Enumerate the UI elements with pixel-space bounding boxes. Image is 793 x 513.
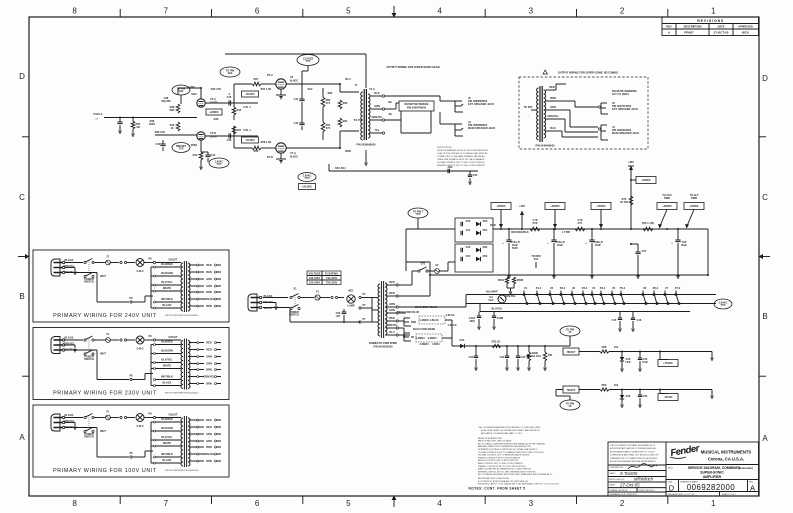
svg-text:BLK/YEL: BLK/YEL <box>162 435 173 439</box>
ground symbol 230V <box>74 345 76 349</box>
svg-text:C50: C50 <box>466 219 471 223</box>
svg-text:TO P18: TO P18 <box>354 118 363 122</box>
regulator U10 7815 <box>563 348 579 355</box>
svg-text:C57: C57 <box>642 249 647 253</box>
svg-text:TYP.: TYP. <box>720 303 726 307</box>
svg-text:7915CT: 7915CT <box>566 388 576 392</box>
combo jack J5 <box>600 103 602 114</box>
tube V5-B 12AT7 <box>197 132 205 140</box>
svg-text:P2-4: P2-4 <box>560 286 566 290</box>
svg-text:P6-2: P6-2 <box>653 286 659 290</box>
svg-text:RED: RED <box>206 263 212 267</box>
svg-text:DRAWN: WILRICH: DRAWN: WILRICH <box>610 489 628 492</box>
boxed label bias V6 <box>242 91 259 97</box>
plug wires 240V <box>65 262 83 264</box>
domestic tap RED1 <box>386 284 396 286</box>
primary wiring box 230V <box>33 328 229 400</box>
svg-text:BRN: BRN <box>206 304 212 308</box>
capacitor C52 line filter <box>343 309 345 312</box>
svg-text:3: 3 <box>529 499 534 508</box>
pilot lamp 100V <box>136 414 144 422</box>
svg-text:V5: V5 <box>612 286 616 290</box>
svg-text:D20: D20 <box>448 165 453 169</box>
svg-text:MRWilrich: MRWilrich <box>634 477 654 482</box>
svg-text:R58: R58 <box>602 345 607 349</box>
svg-text:GRN: GRN <box>206 361 212 365</box>
svg-text:RED: RED <box>549 85 555 89</box>
svg-text:→: → <box>403 315 406 318</box>
tap ladder vertical 240V <box>150 267 152 308</box>
svg-text:DATE: DATE <box>718 25 725 29</box>
svg-text:BLK/GRN: BLK/GRN <box>161 349 173 353</box>
svg-text:* ALL VOLTAGES MEASURED WITH: * ALL VOLTAGES MEASURED WITH RESPECT TO … <box>478 426 541 429</box>
wire V7 plate to OT <box>286 147 340 149</box>
svg-text:DESCRIPTION: DESCRIPTION <box>684 25 702 29</box>
tube V5-A 12AT7 <box>197 99 205 107</box>
revisions table <box>662 17 759 36</box>
zone ticks bottom border <box>119 496 121 504</box>
svg-text:VOLUME CONTROL SET TO FULL CCW: VOLUME CONTROL SET TO FULL CCW POSITION <box>437 162 485 164</box>
svg-text:F1: F1 <box>107 332 111 336</box>
svg-text:C40-2: C40-2 <box>137 347 145 351</box>
svg-text:22@450: 22@450 <box>161 99 171 103</box>
fuse F2 <box>435 269 440 274</box>
svg-text:PART OF FACTORY LINE VOLTAGE:: PART OF FACTORY LINE VOLTAGE: <box>478 440 512 443</box>
svg-text:SWITCH: SWITCH <box>84 357 94 361</box>
svg-text:D16: D16 <box>626 394 631 398</box>
svg-text:VOLUME CONTROL SET TO MINIMUM: VOLUME CONTROL SET TO MINIMUM GAIN POSIT… <box>478 454 530 457</box>
svg-text:BLACK: BLACK <box>163 381 172 385</box>
wire to V6 grid <box>233 84 235 103</box>
svg-text:BLK/RED: BLK/RED <box>161 417 172 421</box>
svg-text:BLU/WHT: BLU/WHT <box>486 290 498 294</box>
transformer T4 secondary winding <box>188 418 190 466</box>
svg-text:NE1: NE1 <box>349 289 355 293</box>
svg-text:P/N 0049466000: P/N 0049466000 <box>535 144 555 148</box>
secondary taps 100V <box>189 419 197 421</box>
svg-text:4-BLU9: 4-BLU9 <box>430 318 439 322</box>
svg-text:V5-B: V5-B <box>210 131 216 135</box>
svg-text:8: 8 <box>72 499 77 508</box>
svg-text:CONNECTED TO THE MAIN SPEAKER: CONNECTED TO THE MAIN SPEAKER JACK AT AL… <box>437 155 486 158</box>
heater return wire <box>480 311 690 313</box>
wire rectifier feed <box>417 218 419 229</box>
combo transformer T5 core <box>539 86 541 142</box>
svg-text:WHT/BLK: WHT/BLK <box>161 297 173 301</box>
capacitor C64 bias <box>469 171 471 175</box>
svg-text:+: + <box>585 241 587 245</box>
white return wire 240V <box>96 274 98 303</box>
svg-text:1: 1 <box>711 7 716 16</box>
svg-text:P6: P6 <box>129 451 133 455</box>
regulator U11 7915 <box>563 386 579 393</box>
svg-text:DOMESTIC PWR XFMR: DOMESTIC PWR XFMR <box>369 341 397 345</box>
checked date row <box>608 470 666 472</box>
svg-text:BRN: BRN <box>206 381 212 385</box>
rectifier block inner rect <box>455 244 493 272</box>
svg-text:SUPER-SONIC: SUPER-SONIC <box>700 471 724 475</box>
svg-text:12AT7: 12AT7 <box>210 100 218 104</box>
svg-text:DATE:: DATE: <box>610 472 616 475</box>
svg-text:BLK/RED: BLK/RED <box>161 340 172 344</box>
lamp to transformer wire 230V <box>144 339 153 341</box>
low voltage feed wire <box>452 345 570 347</box>
svg-text:C21: C21 <box>500 355 505 359</box>
capacitor C50 and diode D50 <box>460 222 462 226</box>
svg-text:+460DC: +460DC <box>641 178 651 182</box>
fuse F1 100V <box>94 417 105 419</box>
rail end grounds lv <box>711 352 713 358</box>
filter caps lv 1 <box>475 346 477 356</box>
svg-text:8Ω: 8Ω <box>388 100 391 104</box>
svg-text:120-240V: 120-240V <box>309 281 320 285</box>
switch ST1 standby <box>412 270 418 272</box>
boxed label +465DC b <box>545 203 565 210</box>
svg-text:C46: C46 <box>227 138 232 142</box>
svg-text:RED: RED <box>206 340 212 344</box>
svg-text:BRN: BRN <box>550 96 556 100</box>
svg-text:4.7K: 4.7K <box>577 218 583 222</box>
svg-text:V2: V2 <box>550 286 554 290</box>
svg-text:NOTES: CONT. FROM SHEET 5: NOTES: CONT. FROM SHEET 5 <box>469 487 526 491</box>
svg-text:BRN: BRN <box>206 290 212 294</box>
switch lower pole 100V <box>84 430 86 432</box>
svg-text:WHITE: WHITE <box>65 425 74 429</box>
primary tap ladder 230V <box>154 344 156 346</box>
svg-text:4: 4 <box>437 499 442 508</box>
combo box warning triangle <box>543 70 547 74</box>
svg-text:C: C <box>19 193 25 202</box>
capacitor C45 coupling <box>228 100 230 105</box>
zone ticks top border <box>119 9 121 17</box>
svg-text:MUSICAL INSTRUMENTS: MUSICAL INSTRUMENTS <box>701 450 752 455</box>
wire B+ rail top <box>225 53 366 55</box>
svg-text:15K: 15K <box>548 353 553 357</box>
transformer T3 secondary winding <box>188 341 190 389</box>
resistor R77 rail <box>575 227 585 231</box>
B+ sense arrow on rail <box>521 213 523 229</box>
wire V5B cathode down <box>200 140 202 152</box>
tap ladder vertical 230V <box>150 345 152 386</box>
power switch 230V <box>84 339 86 341</box>
resistor R50B bleeder <box>512 277 515 284</box>
main B+ rail <box>493 228 708 230</box>
svg-text:APPROVED: APPROVED <box>738 25 753 29</box>
svg-text:OUTPUT WIRING FOR SUPER-SON: OUTPUT WIRING FOR SUPER-SONIC HEAD <box>386 65 439 69</box>
jack J4 main speaker <box>454 124 456 136</box>
wire to V7 grid <box>233 136 235 148</box>
svg-text:BLACK: BLACK <box>65 413 74 417</box>
switch lower pole <box>290 307 292 309</box>
svg-text:VIOLET: VIOLET <box>168 258 178 262</box>
svg-text:C52: C52 <box>466 245 471 249</box>
plug wires 100V <box>65 417 83 419</box>
fuse F1 domestic <box>300 297 314 299</box>
boxed label bias V7 <box>242 137 259 143</box>
domestic AC plug <box>248 294 257 311</box>
centering arrow bottom <box>393 498 395 507</box>
lamp to transformer wire 240V <box>144 262 153 264</box>
resistor R76 rail <box>530 227 540 231</box>
svg-text:LED: LED <box>625 360 630 364</box>
combo jack J4 <box>600 125 602 140</box>
svg-text:P9: P9 <box>148 257 152 261</box>
svg-text:GRN: GRN <box>389 308 395 312</box>
combo tap ORN <box>546 109 560 111</box>
svg-text:R44: R44 <box>193 153 198 157</box>
resistor R58 grid stopper <box>252 146 261 150</box>
combo wires to jacks <box>560 100 575 102</box>
primary tap ladder 100V <box>154 421 156 423</box>
svg-text:WHITE: WHITE <box>163 286 172 290</box>
svg-text:2-RED4: 2-RED4 <box>419 342 429 346</box>
svg-text:F2: F2 <box>436 263 440 267</box>
svg-text:S1: S1 <box>293 287 297 291</box>
svg-text:6L6GC: 6L6GC <box>290 154 298 158</box>
svg-text:BLU6 CON3 RED9: BLU6 CON3 RED9 <box>413 327 436 331</box>
resistor R47 grid <box>233 126 235 136</box>
domestic tap RED2 <box>386 295 396 297</box>
combo tap BLK <box>546 130 560 132</box>
svg-text:→o: →o <box>94 118 99 121</box>
svg-text:WCU: WCU <box>742 31 749 35</box>
heater bus wire upper <box>466 294 716 296</box>
white return wire 230V <box>96 351 98 380</box>
svg-text:C45 .1: C45 .1 <box>243 105 251 109</box>
filter cap C56 <box>591 229 593 240</box>
svg-text:4.7K: 4.7K <box>532 218 538 222</box>
svg-text:R57: R57 <box>254 77 259 81</box>
wire domestic to heater <box>429 275 431 296</box>
svg-text:R57 1.5K: R57 1.5K <box>261 87 272 91</box>
svg-text:1 770R: 1 770R <box>562 230 570 234</box>
svg-text:P1-4: P1-4 <box>536 286 542 290</box>
svg-text:WHT: WHT <box>100 274 106 278</box>
svg-text:RED: RED <box>389 316 395 320</box>
svg-text:P9: P9 <box>148 334 152 338</box>
wire standby feed <box>405 262 407 271</box>
svg-text:22uF: 22uF <box>557 243 563 247</box>
svg-text:C15: C15 <box>612 318 617 322</box>
tap ladder vertical 100V <box>150 422 152 463</box>
svg-text:C46 .1: C46 .1 <box>243 128 251 132</box>
svg-text:1: 1 <box>711 499 716 508</box>
svg-text:R63: R63 <box>343 101 348 105</box>
lamp to transformer wire 100V <box>144 417 153 419</box>
release date row <box>666 491 759 493</box>
svg-text:WHT/BLK: WHT/BLK <box>161 452 173 456</box>
oval callout preamp top <box>172 85 190 95</box>
svg-text:MAIN VOLUME SET AT MINIMUM (FU: MAIN VOLUME SET AT MINIMUM (FULL CCW) PO… <box>478 468 531 471</box>
svg-text:1-BLU9: 1-BLU9 <box>448 323 457 327</box>
bias adjust pot R56 <box>527 352 530 361</box>
svg-text:T4A 250V: T4A 250V <box>326 276 338 280</box>
svg-text:BLK/YEL: BLK/YEL <box>162 280 173 284</box>
svg-text:R64: R64 <box>343 119 348 123</box>
resistor R78 rail <box>643 227 653 231</box>
svg-text:MAIN SPEAKER JACK: MAIN SPEAKER JACK <box>612 131 639 135</box>
svg-text:1&2: 1&2 <box>179 89 184 93</box>
boxed label below V7 <box>299 184 316 190</box>
pilot lamp domestic <box>347 295 355 303</box>
svg-text:P5-4: P5-4 <box>620 286 626 290</box>
svg-text:2: 2 <box>620 7 625 16</box>
svg-text:P5-B: P5-B <box>267 155 273 159</box>
svg-text:EXPORT PWR XFMR P/N 0061263000: EXPORT PWR XFMR P/N 0061263000 <box>165 315 198 317</box>
switch lower pole 240V <box>84 275 86 277</box>
svg-text:P/N 0041932000: P/N 0041932000 <box>373 344 393 348</box>
P7 connector column <box>359 296 361 298</box>
svg-text:VOLTAGE: VOLTAGE <box>309 272 321 276</box>
transformer T3 core <box>183 339 185 390</box>
svg-text:VIOLET: VIOLET <box>168 335 178 339</box>
resistor R56b <box>543 352 546 361</box>
svg-text:+465DC: +465DC <box>550 204 560 208</box>
svg-text:TIMES. SEE DETAILED NOTE ON TH: TIMES. SEE DETAILED NOTE ON THE SCHEMATI… <box>437 158 486 161</box>
combo tap RED <box>546 89 556 91</box>
svg-text:BLACK: BLACK <box>65 336 74 340</box>
svg-text:V7: V7 <box>665 286 669 290</box>
svg-text:P6: P6 <box>129 374 133 378</box>
svg-text:C22: C22 <box>521 355 526 359</box>
capacitor C51 and diode D51 <box>460 231 462 235</box>
svg-text:7: 7 <box>164 7 169 16</box>
footswitch wires <box>411 321 416 323</box>
svg-text:PWR: PWR <box>664 196 670 200</box>
svg-text:A 10K OF AT LEAST 10V OR BEST: A 10K OF AT LEAST 10V OR BEST ACCURACY A… <box>481 429 540 432</box>
svg-text:PRIMARY WIRING FOR 100V UN: PRIMARY WIRING FOR 100V UNIT <box>53 468 157 474</box>
svg-text:+465: +465 <box>519 204 525 208</box>
svg-text:4Ω: 4Ω <box>388 112 391 116</box>
svg-text:SC2: SC2 <box>308 87 314 91</box>
domestic plug wires <box>263 297 288 299</box>
footswitch dashed box <box>419 316 445 324</box>
svg-text:22M: 22M <box>470 319 475 323</box>
svg-text:RED: RED <box>490 223 496 227</box>
svg-text:GRN: GRN <box>206 354 212 358</box>
svg-text:1K 5W: 1K 5W <box>620 200 628 204</box>
svg-text:C51: C51 <box>466 228 471 232</box>
svg-text:BASS CONTROL SET TO FULL CCW R: BASS CONTROL SET TO FULL CCW ROTATION <box>478 462 523 465</box>
svg-text:-52.0DC: -52.0DC <box>245 138 255 142</box>
resistor R50A bleeder <box>505 277 508 284</box>
rail junction dots <box>500 228 502 230</box>
wire V6 cathode ground <box>280 89 282 95</box>
centering arrow top <box>393 6 395 15</box>
svg-text:ALL VOLTAGES ROUNDED WITH TEST: ALL VOLTAGES ROUNDED WITH TEST WELL MEAS… <box>478 473 553 476</box>
svg-text:4: 4 <box>437 7 442 16</box>
row ticks right border <box>759 136 766 138</box>
svg-text:4-RED4: 4-RED4 <box>427 336 437 340</box>
diode D15 LED +15 <box>621 352 623 358</box>
svg-text:WHT: WHT <box>100 352 106 356</box>
svg-text:Fender: Fender <box>670 443 702 459</box>
svg-text:ST1: ST1 <box>421 262 426 266</box>
svg-text:FROM INPUT APPLY TO 60 1000HZ: FROM INPUT APPLY TO 60 1000HZ 5MVT. SET … <box>478 483 560 486</box>
svg-text:APPROVED BY:: APPROVED BY: <box>610 478 626 481</box>
svg-text:6: 6 <box>255 7 260 16</box>
white wire connector 100V <box>130 456 132 458</box>
svg-text:GRN/YEL: GRN/YEL <box>203 297 215 301</box>
svg-text:R E V I S I O N S: R E V I S I O N S <box>697 19 724 23</box>
svg-text:PR657: PR657 <box>684 31 694 35</box>
domestic tap GRN1 <box>386 306 396 308</box>
combo tap GRN <box>546 118 560 120</box>
svg-text:CHECKED BY:: CHECKED BY: <box>610 467 624 469</box>
svg-text:D51: D51 <box>483 228 488 232</box>
svg-text:BLU: BLU <box>345 77 350 81</box>
connector circles 230V <box>120 339 122 341</box>
svg-text:WHITE: WHITE <box>163 441 172 445</box>
domestic transformer T4 core <box>380 281 382 338</box>
svg-text:V6: V6 <box>643 286 647 290</box>
svg-text:A: A <box>668 31 671 35</box>
svg-text:9.Toct05: 9.Toct05 <box>620 471 638 476</box>
wire secondary to jacks <box>385 95 440 97</box>
svg-text:22uF: 22uF <box>595 243 601 247</box>
resistor R45 grid <box>233 103 235 107</box>
svg-text:R78 1.15K: R78 1.15K <box>642 221 654 225</box>
oval TO PIN 7 callout <box>408 208 428 218</box>
svg-text:RED: RED <box>206 418 212 422</box>
svg-text:P4-4: P4-4 <box>600 286 606 290</box>
T1 secondary taps <box>370 95 382 97</box>
svg-text:V5-A: V5-A <box>210 97 216 101</box>
row ticks left border <box>22 136 29 138</box>
svg-text:27-OCT-05: 27-OCT-05 <box>714 31 729 35</box>
boxed label +465DC a <box>491 203 511 210</box>
transformer T3 primary winding <box>181 341 183 389</box>
svg-text:V7-A: V7-A <box>290 151 296 155</box>
svg-text:A: A <box>762 434 768 443</box>
svg-text:V3: V3 <box>572 286 576 290</box>
svg-text:GRN: GRN <box>206 432 212 436</box>
svg-text:RESISTIVE BRIDGE: RESISTIVE BRIDGE <box>405 102 429 106</box>
svg-text:BLU/YEL: BLU/YEL <box>492 307 503 311</box>
svg-text:MIDDLE CONTROL SET TO MID POSI: MIDDLE CONTROL SET TO MID POSITION <box>478 460 518 462</box>
svg-text:P6: P6 <box>129 296 133 300</box>
wire PI plates to coupling <box>205 102 234 104</box>
resistor R75 choke <box>629 196 633 205</box>
capacitor C37 <box>119 118 121 123</box>
svg-text:SERVICE DIAGRAM, COMBINED: SERVICE DIAGRAM, COMBINED <box>688 466 741 470</box>
svg-text:RED RED/BLK: RED RED/BLK <box>511 230 529 234</box>
plug wires 230V <box>65 339 83 341</box>
svg-text:TREBLE CONTROLS SET TO MID ROT: TREBLE CONTROLS SET TO MID ROTATION <box>478 456 520 459</box>
approved by row <box>608 476 666 478</box>
svg-text:CONFIDENCE AND SHALL NOT BE DI: CONFIDENCE AND SHALL NOT BE DISCLOSED OR <box>610 454 659 457</box>
title block outline <box>608 442 759 496</box>
svg-text:P10: P10 <box>534 257 539 261</box>
filter caps lv 2 <box>506 346 508 356</box>
svg-text:BLK/YEL: BLK/YEL <box>162 358 173 362</box>
svg-text:1-RED9: 1-RED9 <box>419 318 429 322</box>
transformer T4 primary winding <box>181 418 183 466</box>
ground symbol 100V <box>74 423 76 427</box>
svg-text:P9: P9 <box>148 412 152 416</box>
secondary taps 240V <box>189 264 197 266</box>
svg-text:BLK/GRN: BLK/GRN <box>161 271 173 275</box>
wire V6 plate to OT <box>286 83 340 85</box>
svg-text:A PROPRIETARY NATURE TO FENDER: A PROPRIETARY NATURE TO FENDER MUSICAL <box>610 447 657 450</box>
svg-text:D: D <box>19 72 25 81</box>
svg-text:V6: V6 <box>290 75 294 79</box>
svg-text:R39 A7K: R39 A7K <box>155 130 166 134</box>
boxed label +460DC <box>636 177 656 184</box>
svg-text:GRN: GRN <box>374 104 380 108</box>
node input junction <box>119 117 121 119</box>
ground symbol 240V <box>74 268 76 272</box>
